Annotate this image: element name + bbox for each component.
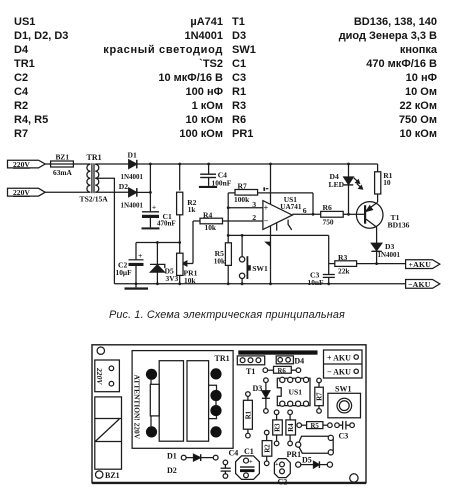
svg-text:PR1: PR1 (287, 450, 302, 459)
svg-text:220V: 220V (13, 188, 30, 197)
pcb fuse BZ1 block (95, 397, 122, 469)
svg-text:TR1: TR1 (87, 153, 102, 162)
resistor R6 750 (321, 203, 357, 227)
svg-text:1N4001: 1N4001 (121, 173, 144, 181)
wire TR1 center tap (95, 178, 114, 284)
svg-text:470nF: 470nF (157, 220, 176, 228)
svg-text:2: 2 (252, 213, 256, 222)
wire top rail (137, 163, 378, 166)
wire op-amp output (292, 193, 320, 216)
zener D5 3V3 (150, 243, 179, 284)
parts list left column values (190, 17, 223, 28)
svg-text:R2: R2 (264, 444, 271, 453)
pcb mounting hole bottom-right (350, 474, 358, 482)
svg-text:+: + (275, 461, 279, 468)
svg-text:+AKU: +AKU (409, 260, 432, 269)
wire D2 output junction (137, 164, 152, 211)
wire mid node to C3 (228, 234, 329, 275)
svg-text:C4: C4 (229, 448, 239, 457)
pcb capacitor C1 (236, 447, 260, 480)
svg-text:R3: R3 (274, 423, 281, 432)
wire TR1 secondary bottom to D2 (95, 191, 128, 193)
svg-text:+: + (152, 203, 156, 212)
potentiometer PR1 10k (177, 253, 198, 285)
svg-text:10k: 10k (214, 257, 225, 265)
pcb transformer TR1 (132, 351, 233, 449)
pcb resistor R4 (286, 410, 296, 446)
svg-text:SW1: SW1 (252, 264, 268, 273)
parts list left column labels (14, 17, 35, 28)
node feedback vertical (227, 193, 230, 243)
switch SW1 (239, 235, 268, 283)
pcb mounting hole top-left (97, 347, 104, 354)
svg-text:10μF: 10μF (116, 268, 133, 277)
svg-text:−: − (264, 216, 269, 225)
svg-text:R6: R6 (323, 203, 332, 212)
svg-text:BZ1: BZ1 (56, 152, 70, 161)
parts list right column values (354, 17, 437, 28)
pcb mounting hole bottom-left (96, 471, 120, 480)
svg-text:+: + (138, 251, 143, 260)
svg-text:100nF: 100nF (212, 179, 232, 188)
svg-text:1k: 1k (188, 206, 196, 214)
op-amp US1 UA741 (263, 195, 302, 231)
svg-text:750: 750 (323, 218, 334, 227)
pcb terminal block AKU (324, 350, 363, 378)
svg-text:D1: D1 (128, 150, 137, 159)
svg-text:C2: C2 (278, 478, 288, 487)
svg-text:+: + (264, 204, 269, 213)
pcb connector 220V (95, 360, 120, 392)
svg-text:R1: R1 (246, 410, 253, 419)
wire R4 to pin2 (223, 220, 263, 222)
svg-text:−AKU: −AKU (408, 280, 431, 289)
svg-text:1N4001: 1N4001 (378, 251, 401, 259)
diode D3 1N4001 (371, 227, 400, 265)
resistor R1 10 (375, 164, 393, 202)
wire C2 D5 node (136, 241, 181, 244)
resistor R7 100k (228, 182, 313, 204)
svg-text:10nF: 10nF (308, 278, 325, 287)
svg-text:D5: D5 (302, 455, 312, 464)
svg-text:BZ1: BZ1 (105, 471, 120, 480)
svg-text:10: 10 (383, 178, 391, 187)
terminal 220V top (8, 160, 46, 169)
wire TR1 secondary top to D1 (95, 163, 128, 165)
svg-text:10k: 10k (205, 223, 217, 232)
svg-text:C3: C3 (339, 431, 349, 440)
pcb resistor R3 (273, 410, 283, 446)
svg-text:SW1: SW1 (335, 384, 351, 393)
wire 220V to BZ1 (45, 163, 50, 165)
svg-text:R6: R6 (278, 368, 287, 375)
resistor R4 10k (193, 211, 223, 233)
wire 220V to TR1 primary (45, 191, 90, 193)
terminal 220V bottom (8, 188, 46, 197)
resistor R3 22k (329, 253, 406, 275)
svg-text:D2: D2 (167, 466, 177, 475)
wire PR1 wiper to R4 (182, 221, 193, 266)
svg-text:R4: R4 (288, 423, 295, 432)
svg-text:D3: D3 (385, 242, 394, 251)
svg-text:− AKU: − AKU (327, 368, 351, 377)
pcb button SW1 (328, 384, 361, 418)
svg-text:+ AKU: + AKU (327, 354, 351, 363)
resistor R2 1k (177, 164, 197, 253)
pcb resistor R1 (243, 392, 252, 438)
svg-text:C1: C1 (244, 447, 254, 456)
svg-text:TR1: TR1 (215, 354, 230, 363)
wire bottom rail (114, 282, 405, 285)
terminal -AKU (406, 280, 440, 289)
wire pin 3 (228, 200, 263, 209)
wire BZ1 to TR1 (73, 163, 90, 165)
svg-text:TS2/15A: TS2/15A (80, 195, 109, 204)
capacitor C3 10nF (308, 270, 335, 287)
diode D1 1N4001 (121, 150, 144, 181)
parts list right column labels (232, 17, 245, 28)
fuse BZ1 63mA (50, 152, 75, 177)
svg-text:R5: R5 (311, 423, 320, 430)
LED D4 (329, 164, 363, 214)
capacitor C4 100nF (199, 164, 232, 188)
svg-text:100k: 100k (234, 195, 250, 204)
svg-text:3: 3 (252, 200, 256, 209)
transformer TR1 TS2/15A (80, 153, 109, 204)
svg-text:BD136: BD136 (388, 221, 410, 230)
figure caption (109, 309, 345, 321)
pcb capacitor C4 (221, 448, 239, 478)
pcb capacitor C2 (274, 459, 290, 487)
transistor T1 BD136 (356, 202, 409, 230)
pcb resistor R6 (263, 366, 301, 375)
svg-text:R4: R4 (203, 211, 212, 220)
svg-text:US1: US1 (289, 388, 303, 397)
pcb diode D3 (253, 378, 270, 413)
svg-text:D3: D3 (253, 384, 263, 393)
svg-text:D1: D1 (167, 452, 177, 461)
svg-text:T1: T1 (246, 367, 255, 376)
pcb diode D5 (296, 455, 333, 468)
svg-text:1N4001: 1N4001 (121, 201, 144, 209)
svg-text:LED: LED (329, 180, 345, 189)
svg-text:ATTENTION! 220V: ATTENTION! 220V (133, 375, 142, 440)
svg-text:3V3: 3V3 (166, 274, 179, 283)
svg-text:220V: 220V (13, 160, 30, 169)
pin 7 mark (263, 187, 268, 191)
pcb capacitor C3 (335, 421, 355, 440)
svg-text:D4: D4 (294, 357, 304, 366)
svg-text:22k: 22k (338, 266, 350, 275)
pcb diode D1 (167, 452, 218, 462)
pcb resistor R5 (297, 422, 332, 430)
svg-text:63mA: 63mA (53, 168, 73, 177)
resistor R5 10k (214, 243, 232, 284)
opamp supply wire (266, 164, 271, 284)
pcb IC US1 (277, 377, 310, 406)
pcb resistor R2 (262, 430, 272, 465)
pcb resistor R7 (315, 378, 324, 413)
pcb black bar (238, 350, 317, 354)
capacitor C1 470nF (142, 203, 176, 230)
pcb connector T1 (237, 356, 264, 376)
capacitor C2 10uF (116, 243, 149, 290)
svg-text:R3: R3 (338, 253, 347, 262)
svg-text:220V: 220V (95, 367, 104, 385)
svg-text:R7: R7 (317, 392, 324, 401)
svg-text:6: 6 (303, 206, 307, 215)
pcb board outline (92, 345, 366, 483)
svg-text:D2: D2 (119, 182, 128, 191)
terminal +AKU (406, 260, 440, 269)
svg-text:R7: R7 (238, 182, 247, 191)
diode D2 1N4001 (119, 182, 144, 210)
pcb trimmer PR1 (287, 435, 334, 459)
pcb connector D4 (276, 356, 304, 366)
svg-text:UA741: UA741 (280, 203, 302, 211)
svg-text:+: + (249, 458, 253, 465)
